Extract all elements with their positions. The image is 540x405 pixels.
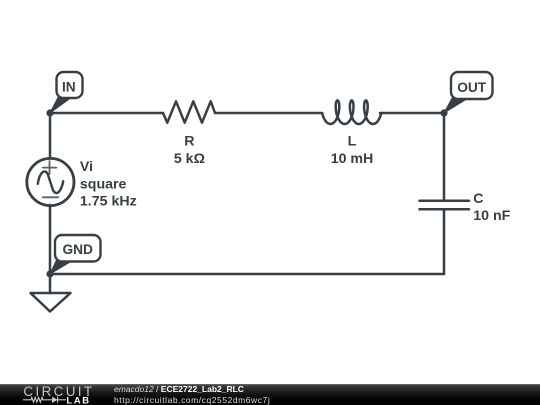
svg-text:10 nF: 10 nF [473,208,510,224]
ground [31,274,71,312]
node OUT [440,72,492,117]
wire [443,209,446,274]
svg-text:IN: IN [62,80,76,95]
wire [49,113,52,158]
wire [215,112,321,115]
svg-text:R: R [184,134,194,150]
node GND [46,235,100,278]
inductor L [322,100,381,124]
svg-text:LAB: LAB [66,395,90,405]
voltage source V1 [27,158,74,205]
node IN [46,72,82,117]
svg-text:C: C [473,191,483,207]
CircuitLab logo [0,384,110,405]
svg-text:square: square [80,176,127,192]
svg-text:GND: GND [62,242,93,257]
svg-text:OUT: OUT [457,80,487,95]
capacitor C [420,201,470,210]
wire [50,112,163,115]
wire [380,112,444,115]
svg-text:10 mH: 10 mH [331,151,374,167]
svg-text:5 kΩ: 5 kΩ [174,151,205,167]
resistor R [163,101,215,122]
wire [50,273,444,276]
svg-text:Vi: Vi [80,159,93,175]
footer bar [0,384,540,405]
svg-text:1.75 kHz: 1.75 kHz [80,194,137,210]
svg-text:L: L [348,134,357,150]
wire [443,113,446,200]
wire [49,205,52,274]
